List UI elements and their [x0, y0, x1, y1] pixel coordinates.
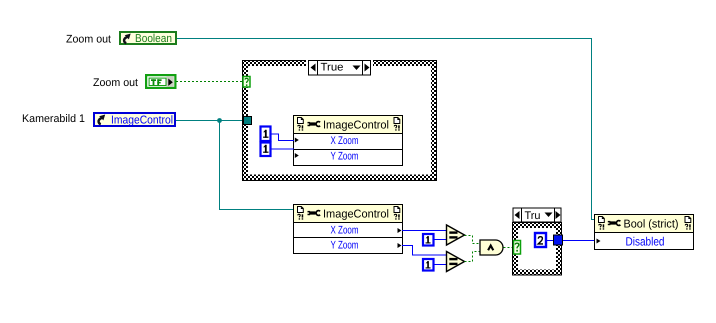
numeric constant 2	[535, 233, 546, 247]
refnum control "ImageControl" (Kamerabild 1 terminal)	[94, 113, 175, 127]
tunnel (refnum input) on case 1	[244, 117, 252, 125]
Equal? node top	[447, 225, 465, 245]
wire: Y Zoom to Equal? bottom	[402, 246, 447, 256]
node 2 X Zoom row (output)	[398, 228, 402, 233]
tunnel (output) on case 2	[554, 235, 563, 245]
case structure 2 (Tru case) border	[512, 222, 562, 276]
node 3 left page icon	[599, 217, 605, 223]
wire boolean dotted: TF to case selector	[176, 81, 243, 83]
case 1 selector label "True"	[306, 60, 373, 76]
wire: lower 1 to Y Zoom	[272, 148, 295, 150]
node 1 X Zoom row	[295, 138, 299, 143]
node 3 wrench icon	[608, 221, 621, 226]
svg-text:Boolean: Boolean	[135, 33, 172, 45]
node 1 right page icon	[394, 118, 400, 124]
wire boolean dotted: Equal? top to And	[465, 236, 481, 244]
svg-text:Zoom out: Zoom out	[93, 77, 138, 89]
wire: const 1 to Equal? bottom	[435, 264, 447, 266]
wire: upper 1 to X Zoom	[272, 134, 295, 141]
And node	[480, 240, 503, 255]
boolean constant TF	[146, 75, 175, 88]
wire: 2 to tunnel	[547, 240, 553, 242]
wire boolean dotted: Equal? bottom to And	[465, 252, 481, 262]
svg-text:Disabled: Disabled	[626, 235, 665, 249]
numeric constant 1 (comparison top)	[423, 234, 434, 246]
svg-text:True: True	[321, 62, 344, 74]
svg-text:ImageControl: ImageControl	[111, 115, 173, 127]
svg-text:Tru: Tru	[525, 210, 541, 222]
svg-text:ImageControl: ImageControl	[323, 120, 389, 132]
numeric constant 1 (upper, in case)	[261, 127, 271, 142]
node 1 left page icon	[298, 118, 304, 124]
property node 1 (write): ImageControl X Zoom / Y Zoom	[294, 116, 403, 166]
svg-text:Y Zoom: Y Zoom	[331, 151, 359, 163]
svg-text:Bool (strict): Bool (strict)	[624, 219, 679, 231]
case 2 selector label "Tru"	[513, 208, 561, 222]
wire: X Zoom to Equal? top	[402, 230, 447, 232]
wire: const 1 to Equal? top	[435, 239, 447, 241]
case 2 selector tunnel "?"	[514, 241, 521, 255]
wire: tunnel to Disabled input	[563, 240, 595, 242]
node 2 Y Zoom row (output)	[398, 243, 402, 248]
property node 3 (write): Bool (strict) Disabled	[595, 215, 694, 250]
svg-text:Zoom out: Zoom out	[66, 34, 111, 46]
node 2 right page icon	[394, 207, 400, 213]
svg-text:X Zoom: X Zoom	[331, 225, 359, 237]
node 1 wrench icon	[308, 122, 321, 127]
wire teal: Boolean to Bool(strict) property node	[177, 39, 595, 220]
svg-text:X Zoom: X Zoom	[331, 135, 359, 147]
numeric constant 1 (lower, in case)	[261, 143, 271, 157]
svg-text:Kamerabild 1: Kamerabild 1	[22, 113, 85, 125]
numeric constant 1 (comparison bottom)	[423, 259, 434, 271]
property node 2 (read): ImageControl X Zoom / Y Zoom	[294, 205, 403, 254]
wire junction	[217, 118, 222, 123]
case structure 1 (True case) border	[242, 60, 437, 181]
Equal? node bottom	[447, 252, 465, 272]
node 1 Y Zoom row	[295, 153, 299, 158]
svg-text:Y Zoom: Y Zoom	[331, 240, 359, 252]
wire boolean dotted: And to case 2 selector	[504, 247, 514, 249]
svg-text:ImageControl: ImageControl	[323, 209, 389, 221]
boolean control "Boolean" (Zoom out terminal)	[120, 32, 176, 45]
wire teal: ImageControl to tunnel and node 2	[176, 120, 294, 122]
node 2 wrench icon	[308, 211, 321, 216]
node 2 left page icon	[298, 207, 304, 213]
case 1 selector tunnel "?"	[243, 77, 250, 88]
node 3 right page icon	[685, 217, 691, 223]
node 3 Disabled row (input)	[597, 239, 601, 244]
